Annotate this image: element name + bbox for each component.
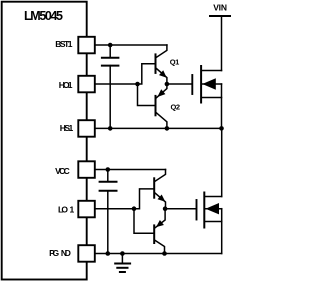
transistor Q3 NPN [154, 170, 165, 209]
wire to M1 gate [167, 83, 192, 85]
node C2 to PGND rail [106, 251, 111, 256]
svg-text:ND: ND [61, 248, 71, 258]
wire VIN to M1 drain [221, 16, 223, 71]
wire PGND rail [95, 253, 222, 255]
pin HO1 [78, 76, 95, 93]
svg-text:VCC: VCC [55, 166, 70, 176]
transistor Q4 PNP [154, 209, 165, 254]
svg-text:BST1: BST1 [55, 39, 72, 49]
svg-text:HO1: HO1 [59, 80, 73, 90]
transistor Q2 PNP [156, 84, 167, 128]
wire HS1 rail [95, 127, 222, 129]
wire HO1 to base bus [95, 83, 138, 85]
node VIN terminal bar [210, 15, 230, 17]
svg-text:HS1: HS1 [60, 123, 74, 133]
svg-text:VIN: VIN [213, 2, 227, 12]
svg-text:Q1: Q1 [170, 58, 180, 67]
node Q1/Q2 emitter output [165, 82, 170, 87]
pin HS1 [78, 120, 95, 137]
node M1 source to HS1 rail [219, 126, 224, 131]
wire to M2 gate [165, 208, 196, 210]
wire VCC to Q3 collector [95, 169, 166, 171]
capacitor C1 bootstrap [102, 45, 119, 128]
wire HS1 rail to M2 drain [221, 128, 223, 196]
node Q2 collector to HS1 rail [165, 126, 170, 131]
transistor Q1 NPN [156, 45, 167, 84]
wire to Q4 base [134, 209, 153, 234]
wire to Q3 base [134, 189, 153, 209]
svg-text:PG: PG [49, 248, 59, 258]
node BST1/C1 junction [108, 43, 113, 48]
svg-text:1: 1 [70, 204, 75, 214]
node C1 to HS1 rail [108, 126, 113, 131]
wire to Q2 base [138, 84, 155, 106]
wire BST1 to Q1 collector [95, 44, 167, 46]
transistor M1 high-side NMOS [192, 66, 221, 128]
node Q4 collector to PGND rail [162, 251, 167, 256]
pin LO1 [78, 201, 95, 218]
node VCC/C2 junction [106, 167, 111, 172]
wire to Q1 base [138, 64, 155, 84]
wire LO1 to base bus [95, 208, 134, 210]
node HO1 base bus junction [135, 82, 140, 87]
svg-text:LO: LO [58, 204, 68, 214]
node Q3/Q4 emitter output [163, 206, 168, 211]
ground [115, 254, 130, 273]
transistor M2 low-side NMOS [197, 193, 222, 254]
IC U1 LM5045 outline [2, 2, 87, 280]
svg-text:Q2: Q2 [171, 103, 181, 112]
pin BST1 [78, 37, 95, 54]
pin VCC [78, 161, 95, 178]
node ground to PGND rail [120, 251, 125, 256]
svg-text:LM5045: LM5045 [24, 9, 63, 23]
pin PGND [78, 245, 95, 262]
node LO1 base bus junction [132, 206, 137, 211]
capacitor C2 VCC bypass [100, 170, 117, 254]
